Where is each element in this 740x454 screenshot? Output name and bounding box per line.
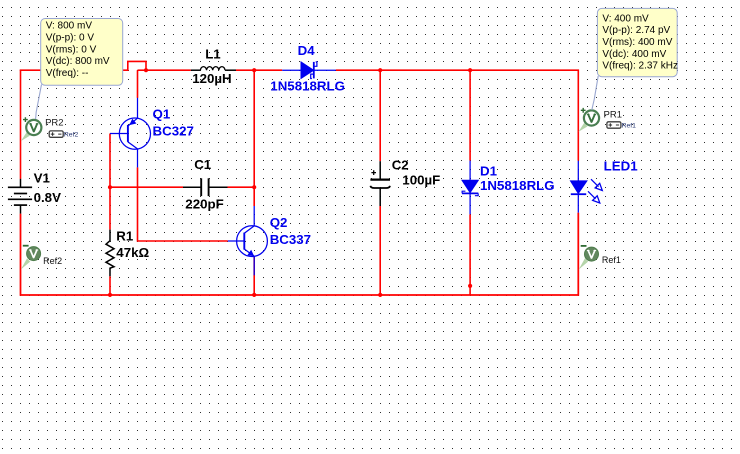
svg-text:V(freq): --: V(freq): --	[46, 68, 89, 79]
svg-text:LED1: LED1	[604, 158, 639, 173]
svg-text:V(dc): 400 mV: V(dc): 400 mV	[602, 49, 666, 60]
svg-text:R1: R1	[116, 228, 134, 243]
svg-text:Ref1: Ref1	[602, 255, 621, 265]
svg-text:V(rms): 0 V: V(rms): 0 V	[46, 44, 97, 55]
svg-text:1N5818RLG: 1N5818RLG	[480, 178, 555, 193]
svg-text:100µF: 100µF	[402, 173, 440, 188]
svg-text:1N5818RLG: 1N5818RLG	[270, 78, 345, 93]
svg-text:47kΩ: 47kΩ	[116, 245, 149, 260]
svg-text:V(p-p): 0 V: V(p-p): 0 V	[46, 32, 95, 43]
svg-text:PR1: PR1	[604, 109, 622, 120]
svg-text:L1: L1	[205, 46, 221, 61]
svg-text:BC337: BC337	[270, 232, 311, 247]
svg-text:Q2: Q2	[270, 215, 288, 230]
svg-text:120µH: 120µH	[192, 71, 231, 86]
svg-text:220pF: 220pF	[185, 196, 223, 211]
svg-text:PR2: PR2	[45, 118, 63, 129]
svg-text:Ref2: Ref2	[64, 132, 79, 139]
svg-text:V(p-p): 2.74 pV: V(p-p): 2.74 pV	[602, 25, 670, 36]
svg-text:Ref2: Ref2	[43, 256, 62, 266]
svg-text:V(freq): 2.37 kHz: V(freq): 2.37 kHz	[602, 61, 678, 72]
svg-text:C1: C1	[194, 157, 212, 172]
svg-text:V: 800 mV: V: 800 mV	[46, 21, 93, 32]
svg-text:0.8V: 0.8V	[34, 190, 61, 205]
svg-text:D1: D1	[480, 163, 498, 178]
svg-text:Q1: Q1	[153, 107, 171, 122]
svg-text:V1: V1	[34, 170, 51, 185]
svg-text:BC327: BC327	[153, 124, 194, 139]
svg-text:V(rms): 400 mV: V(rms): 400 mV	[602, 37, 672, 48]
svg-text:D4: D4	[298, 43, 316, 58]
svg-text:C2: C2	[392, 157, 409, 172]
svg-text:Ref1: Ref1	[622, 123, 637, 130]
svg-text:V(dc): 800 mV: V(dc): 800 mV	[46, 56, 110, 67]
svg-text:V: 400 mV: V: 400 mV	[602, 13, 649, 24]
